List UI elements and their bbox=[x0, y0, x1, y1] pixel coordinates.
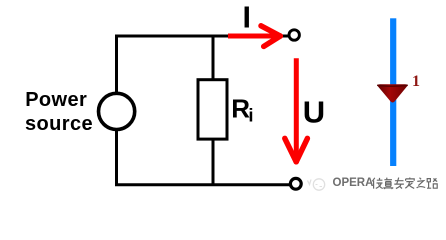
wire: bottom net bbox=[115, 183, 290, 186]
power source symbol bbox=[99, 93, 135, 129]
wire: left branch lower lead bbox=[115, 130, 118, 186]
wire: left branch upper lead bbox=[115, 35, 118, 94]
watermark glyph zhuan bbox=[394, 178, 404, 189]
watermark glyph jia bbox=[405, 178, 414, 189]
svg-text:1: 1 bbox=[412, 73, 420, 90]
watermark glyph zhen bbox=[383, 178, 393, 189]
terminal node top (output +) bbox=[289, 30, 299, 40]
watermark glyph zhi bbox=[417, 178, 426, 188]
probe marker cone bbox=[377, 84, 408, 102]
terminal node bottom (output -) bbox=[290, 178, 301, 189]
svg-text:I: I bbox=[243, 1, 251, 35]
current arrow I bbox=[228, 26, 280, 47]
probe line 1 (blue measurement path) bbox=[390, 18, 396, 166]
svg-text:U: U bbox=[303, 94, 325, 129]
svg-text:Power: Power bbox=[25, 89, 87, 111]
voltage arrow U bbox=[285, 58, 308, 162]
watermark logo bbox=[308, 179, 325, 190]
wire: top net (source plus to output terminal) bbox=[115, 35, 288, 38]
svg-text:source: source bbox=[25, 113, 93, 135]
wire: Ri top lead bbox=[212, 35, 215, 80]
svg-text:OPERA: OPERA bbox=[333, 177, 374, 189]
resistor Ri bbox=[198, 80, 227, 139]
watermark glyph lu bbox=[427, 178, 437, 188]
watermark glyph fang bbox=[372, 178, 383, 189]
svg-text:i: i bbox=[248, 104, 253, 125]
wire: Ri bottom lead bbox=[212, 140, 215, 184]
